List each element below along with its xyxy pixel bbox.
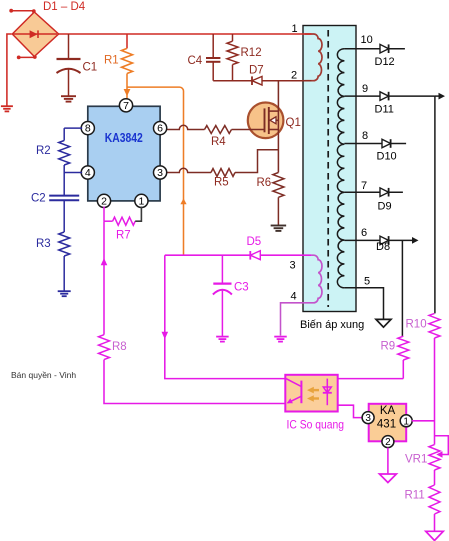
arrow down on VCC drop (162, 332, 169, 339)
svg-text:3: 3 (290, 260, 296, 272)
capacitor C1 (68, 34, 70, 59)
wire to R7 (104, 220, 113, 222)
transformer core (dashed line) (327, 30, 329, 307)
optocoupler phototransistor (300, 381, 302, 404)
diode D5 (249, 251, 251, 260)
svg-text:C1: C1 (83, 62, 98, 74)
pin 8 circle (81, 122, 94, 135)
ground (R3, blue) (58, 290, 71, 292)
transformer primary winding pins 1-2 (305, 34, 323, 81)
wire main DC bus (top) (58, 33, 311, 35)
diode D9 (380, 188, 389, 197)
svg-text:VR1: VR1 (405, 454, 427, 466)
svg-text:1: 1 (403, 416, 409, 427)
wire tap pin 6 (344, 239, 412, 241)
svg-text:C2: C2 (31, 193, 46, 205)
svg-text:R3: R3 (36, 238, 51, 250)
svg-text:7: 7 (361, 180, 367, 192)
svg-text:Bán quyền - Vinh: Bán quyền - Vinh (11, 370, 76, 380)
svg-text:D7: D7 (249, 65, 264, 77)
wire R8 to opto LED anode (104, 360, 285, 404)
svg-text:D1 – D4: D1 – D4 (43, 1, 86, 13)
input terminal top (dots and lead) (9, 9, 13, 13)
wire bus down to C4 (212, 34, 214, 58)
wire R5 to source node (235, 150, 278, 173)
wire pin6 to R4 with hop (167, 125, 205, 129)
resistor R9 (398, 336, 409, 360)
ground (pin 4, magenta) (274, 336, 287, 338)
output arrow on pin 6 line (412, 237, 419, 244)
capacitor C3 (221, 255, 223, 283)
svg-text:C3: C3 (234, 282, 249, 294)
svg-text:2: 2 (291, 70, 297, 82)
svg-text:R2: R2 (36, 145, 51, 157)
wire pin2 down (103, 207, 105, 222)
wire pin 5 to ground (344, 288, 383, 320)
ground (input, red) (1, 105, 13, 107)
diode D10 (382, 139, 391, 148)
pin 3 circle (154, 166, 167, 179)
resistor R1 (122, 48, 133, 73)
wire KA431 pin1 to divider (412, 420, 435, 422)
svg-text:D9: D9 (378, 201, 392, 213)
arrow up on pin2 line (101, 258, 108, 265)
transformer aux winding pins 3-4 (305, 255, 322, 303)
resistor R12 (232, 34, 234, 41)
pin 6 circle (154, 122, 167, 135)
output arrow on pin 9 line (435, 95, 439, 97)
svg-text:D11: D11 (375, 104, 394, 116)
input terminal bottom (dots and lead) (17, 56, 21, 60)
wire R3 to ground (63, 256, 65, 291)
optocoupler U2 body (285, 375, 337, 412)
resistor R7 (113, 217, 136, 225)
wire snubber bottom rail (213, 80, 311, 82)
svg-text:5: 5 (364, 276, 370, 288)
svg-text:R6: R6 (257, 177, 272, 189)
wire tap pin 7 (344, 191, 403, 193)
svg-text:9: 9 (362, 83, 368, 95)
svg-text:6: 6 (157, 123, 163, 135)
svg-text:3: 3 (365, 413, 371, 424)
bridge rectifier D1-D4 body (12, 12, 58, 57)
wire R2 top (63, 128, 65, 140)
wire orange branch to right (127, 87, 184, 255)
svg-text:R10: R10 (406, 319, 427, 331)
svg-text:R8: R8 (112, 341, 127, 353)
svg-text:1: 1 (138, 196, 144, 208)
pin 4 circle (81, 166, 94, 179)
wire C2 to R3 (63, 200, 65, 232)
capacitor C2 (49, 195, 79, 197)
resistor R2 (59, 141, 70, 166)
svg-text:2: 2 (101, 196, 107, 208)
wire D11 output down to R10 (434, 96, 436, 313)
svg-text:8: 8 (362, 130, 368, 142)
ground (R6, gray) (271, 225, 287, 227)
wire pin4 winding to ground (281, 303, 305, 336)
ground (C1, dark red) (61, 95, 76, 97)
wire VCC corner down to opto (165, 255, 285, 378)
resistor R4 (205, 126, 232, 134)
wire KA431 pin2 to ground (387, 448, 389, 474)
bridge rectifier diode symbol (14, 33, 58, 35)
wire junction to pin4 (64, 172, 82, 174)
wire tap pin 10 (344, 48, 405, 50)
resistor R6 (273, 173, 284, 198)
wire tap pin 9 to output corner (344, 95, 435, 97)
svg-text:D10: D10 (377, 151, 397, 163)
wire D8 output down to R9 (401, 240, 403, 336)
svg-text:10: 10 (361, 34, 373, 46)
IC U3 KA431 body (369, 404, 407, 442)
ground (pin 5, open) (376, 319, 391, 327)
KA431 pin 2 circle (382, 436, 394, 448)
svg-text:KA3842: KA3842 (105, 131, 143, 145)
pin 1 circle (135, 194, 148, 207)
wire pin3 to R5 with hop (167, 168, 211, 172)
KA431 pin 1 circle (400, 415, 412, 427)
transistor Q1 internals (264, 108, 266, 132)
wire bus to R1 (126, 34, 128, 48)
svg-text:D8: D8 (376, 241, 390, 253)
resistor R10 (429, 313, 440, 338)
wire tap pin 8 (344, 143, 406, 145)
wire R10 down to VR1 (434, 338, 436, 445)
pin 2 circle (97, 194, 110, 207)
diode D11 (380, 92, 389, 101)
svg-text:R5: R5 (214, 177, 229, 189)
svg-text:3: 3 (157, 167, 163, 179)
ground (bottom, open magenta) (426, 531, 444, 540)
wire R9 to opto corner (402, 360, 404, 379)
resistor R8 (99, 335, 110, 360)
diode D8 (380, 236, 389, 245)
wire R2 to C2 (63, 165, 65, 196)
wire bridge left to ground (7, 34, 12, 106)
KA431 pin 3 circle (362, 412, 374, 424)
svg-text:R9: R9 (381, 341, 396, 353)
svg-text:D12: D12 (375, 56, 395, 68)
pin 7 circle (119, 99, 132, 112)
optocoupler LED (326, 379, 328, 406)
wire R7 to pin1 (dark) (135, 207, 141, 222)
transistor Q1 body (248, 103, 284, 139)
optocoupler light arrows (313, 389, 319, 391)
wire opto LED cathode to KA431 pin3 (338, 405, 363, 417)
wire drain-source vertical (277, 81, 279, 173)
svg-text:D5: D5 (247, 236, 262, 248)
svg-text:Biến áp xung: Biến áp xung (300, 319, 364, 331)
svg-text:C4: C4 (188, 55, 203, 67)
svg-text:8: 8 (85, 123, 91, 135)
wire pin2 line down to R8 (103, 221, 105, 335)
wire R4 to gate (232, 129, 265, 131)
arrow up on orange vertical (180, 198, 186, 204)
wire VCC rail (165, 254, 312, 256)
diode D12 (380, 44, 389, 53)
svg-text:KA: KA (380, 405, 396, 417)
transformer secondary winding pins 10-5 (337, 49, 344, 288)
VR1 wiper arrow (435, 436, 449, 455)
svg-text:7: 7 (123, 100, 129, 112)
svg-text:2: 2 (385, 437, 391, 448)
svg-text:Q1: Q1 (286, 117, 301, 129)
IC U1 KA3842 body (88, 106, 160, 201)
ground (C3, magenta) (216, 336, 229, 338)
svg-text:1: 1 (292, 23, 298, 35)
svg-text:IC So quang: IC So quang (287, 419, 345, 432)
transformer T1 body (Bien ap xung) (303, 26, 356, 312)
arrow into pin 7 (124, 89, 131, 96)
wire pin8 to R2 chain (64, 127, 82, 129)
resistor R5 (211, 169, 235, 177)
wire VR1 to R11 (434, 470, 436, 485)
svg-text:R12: R12 (241, 47, 262, 59)
svg-text:4: 4 (291, 291, 297, 303)
svg-text:R7: R7 (116, 230, 131, 242)
wire opto collector to R9 node (338, 378, 404, 380)
capacitor C4 (206, 57, 220, 59)
resistor R11 (429, 485, 440, 514)
svg-text:R11: R11 (405, 490, 425, 502)
wire R1 to pin7 (orange) with branch (126, 74, 128, 100)
resistor R3 (59, 232, 70, 256)
potentiometer VR1 (429, 445, 440, 470)
svg-text:R1: R1 (104, 55, 119, 67)
svg-text:4: 4 (85, 167, 91, 179)
svg-text:R4: R4 (211, 136, 226, 148)
diode D7 (251, 76, 253, 85)
wire R11 to ground (434, 514, 436, 531)
wire R6 to ground (277, 197, 279, 225)
svg-text:431: 431 (377, 419, 396, 431)
ground (KA431, open magenta) (379, 474, 396, 483)
svg-text:6: 6 (361, 227, 367, 239)
